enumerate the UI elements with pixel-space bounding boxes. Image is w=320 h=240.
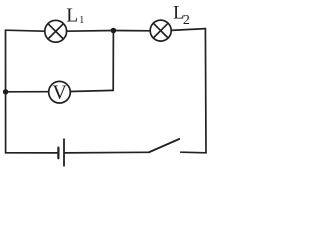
battery short plate xyxy=(57,148,59,159)
wire bottom-left to battery xyxy=(6,152,58,154)
wire switch to bottom-right corner xyxy=(181,151,206,154)
svg-text:1: 1 xyxy=(79,15,84,26)
wire left side vertical xyxy=(5,30,7,153)
label L2 xyxy=(173,4,190,29)
lamp L1 xyxy=(45,20,67,42)
switch blade xyxy=(149,139,179,152)
junction node top xyxy=(111,28,117,34)
svg-text:2: 2 xyxy=(183,13,190,28)
wire L2 to top-right corner xyxy=(171,29,205,31)
voltmeter U1 xyxy=(49,81,71,103)
battery long plate xyxy=(63,139,65,166)
svg-text:V: V xyxy=(52,81,67,103)
wire top-left to lamp L1 xyxy=(6,30,45,31)
wire L1 to middle junction xyxy=(67,30,114,33)
lamp L2 xyxy=(150,20,171,41)
wire right side vertical xyxy=(204,29,207,153)
label L1 xyxy=(66,6,84,27)
wire middle vertical xyxy=(112,31,114,91)
wire voltmeter right xyxy=(70,90,113,91)
junction node left xyxy=(3,89,8,94)
wire junction to lamp L2 xyxy=(113,30,150,32)
svg-text:L: L xyxy=(66,6,78,27)
wire voltmeter left xyxy=(6,91,49,93)
wire battery to switch xyxy=(65,151,149,154)
